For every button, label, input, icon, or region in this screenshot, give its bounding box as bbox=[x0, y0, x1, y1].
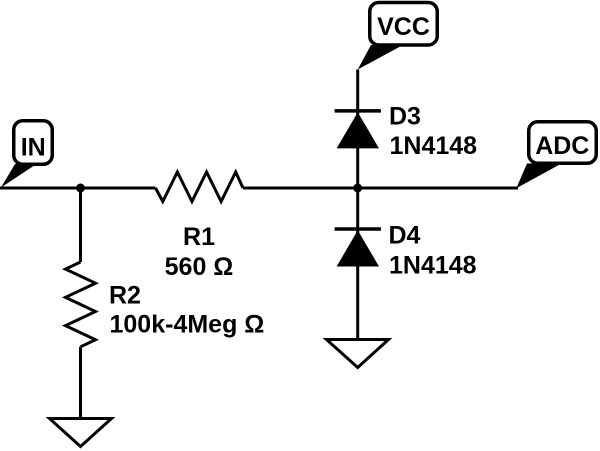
svg-text:R1: R1 bbox=[183, 223, 215, 251]
svg-text:IN: IN bbox=[21, 134, 46, 162]
svg-text:R2: R2 bbox=[109, 281, 141, 309]
wire IN to R1 bbox=[0, 187, 156, 190]
svg-text:1N4148: 1N4148 bbox=[390, 132, 478, 160]
node A junction dot bbox=[76, 184, 85, 193]
svg-text:1N4148: 1N4148 bbox=[389, 251, 477, 279]
net flag ADC pointer bbox=[516, 164, 561, 189]
ground (below D4) bbox=[327, 340, 389, 368]
svg-text:100k-4Meg Ω: 100k-4Meg Ω bbox=[110, 311, 265, 339]
wire R2 to ground bbox=[79, 347, 82, 419]
svg-text:ADC: ADC bbox=[535, 132, 589, 160]
net flag VCC pointer bbox=[358, 45, 403, 70]
wire VCC to D3 to node B bbox=[356, 70, 359, 189]
diode D4 cathode bar bbox=[335, 227, 381, 231]
net flag IN pointer bbox=[1, 164, 37, 188]
svg-text:560 Ω: 560 Ω bbox=[165, 253, 234, 281]
net flag VCC box bbox=[370, 2, 438, 45]
wire R1 to ADC bbox=[243, 187, 518, 190]
resistor R2 bbox=[66, 262, 96, 347]
svg-text:D3: D3 bbox=[389, 103, 421, 131]
wire node B to D4 to ground bbox=[356, 188, 359, 340]
diode D4 triangle bbox=[337, 230, 379, 266]
diode D3 triangle bbox=[337, 112, 379, 148]
svg-text:VCC: VCC bbox=[377, 13, 430, 41]
diode D3 cathode bar bbox=[335, 109, 381, 113]
wire node A to R2 bbox=[79, 188, 82, 262]
net flag ADC box bbox=[529, 122, 597, 164]
svg-text:D4: D4 bbox=[389, 222, 421, 250]
node B junction dot bbox=[353, 184, 362, 193]
ground (below R2) bbox=[50, 419, 112, 447]
net flag IN box bbox=[14, 121, 53, 165]
resistor R1 bbox=[156, 172, 244, 202]
